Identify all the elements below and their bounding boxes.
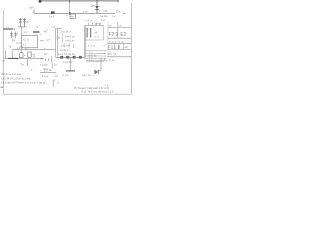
svg-text:a-.a-.: a-.a-.	[109, 59, 115, 62]
rail junction J2	[96, 0, 98, 3]
svg-text:1a.: 1a.	[49, 69, 53, 72]
svg-text:1a 4a 1: 1a 4a 1	[60, 49, 69, 52]
svg-text:7a|: 7a|	[56, 36, 60, 40]
Q1 dash	[40, 40, 44, 42]
svg-text:4. 1a: 4. 1a	[62, 73, 68, 77]
svg-text:=.: =.	[104, 58, 107, 62]
stub x5	[5, 51, 7, 59]
svg-text:c.1a1a: c.1a1a	[40, 64, 48, 67]
svg-text:w.: w.	[25, 47, 28, 50]
wire B thin	[13, 28, 16, 30]
wire A far right	[123, 12, 126, 14]
right box vline	[100, 57, 102, 70]
svg-text:9: 9	[115, 32, 118, 38]
frame right border	[130, 3, 132, 94]
svg-text:= .= .=: = .= .=	[85, 20, 93, 23]
inner bar 1	[87, 28, 88, 37]
rail end blob	[39, 0, 42, 3]
table T2 bottom line	[108, 48, 132, 50]
crystal cap X1	[19, 18, 22, 27]
wire D dark segment	[8, 57, 18, 59]
pin fanout row 3	[86, 55, 104, 57]
svg-text:1w.: 1w.	[44, 53, 48, 56]
svg-text:a8: a8	[125, 45, 129, 49]
diode D2 wire from rail	[69, 1, 71, 13]
svg-text:1a.4: 1a.4	[49, 14, 55, 18]
bar1 caps	[86, 28, 88, 37]
svg-text:q1: q1	[26, 19, 30, 23]
table T1 divider	[117, 22, 119, 38]
right area line	[86, 60, 108, 62]
svg-text:1a+4.1w: 1a+4.1w	[65, 35, 75, 39]
svg-text:Oa: Oa	[104, 9, 108, 13]
wire D ticks	[46, 58, 52, 61]
dash g4	[43, 68, 48, 70]
svg-text:a--.: a--.	[120, 24, 124, 27]
chain comp 4	[79, 56, 82, 59]
table T1 bottom line	[108, 37, 131, 39]
cap C1 vertical	[96, 1, 98, 13]
wire D	[4, 57, 44, 59]
big box left edge 1	[55, 28, 57, 57]
resistor R2	[20, 53, 23, 58]
svg-text:a.1.w+4: a.1.w+4	[61, 43, 71, 47]
T2 divider 2	[118, 43, 120, 49]
inner vline	[62, 33, 64, 43]
table T1 top line	[108, 27, 131, 29]
chain comp 1	[60, 56, 63, 59]
crystal cap X2	[23, 18, 26, 27]
rail end tick right	[117, 0, 119, 2]
svg-text:1.a.w: 1.a.w	[42, 74, 48, 78]
rail junction J1	[69, 0, 71, 3]
inner ticks	[65, 44, 74, 48]
wire C drop	[11, 50, 13, 59]
crystal drop wire	[21, 27, 23, 36]
net flag tick	[33, 10, 35, 14]
svg-text:1.a: 1.a	[101, 18, 105, 22]
T2 divider 3	[122, 43, 124, 49]
svg-text:+: +	[40, 32, 42, 36]
D2 junction tick	[69, 12, 71, 14]
svg-text:+4a.1a+: +4a.1a+	[65, 39, 75, 43]
svg-text:a--.: a--.	[109, 24, 113, 27]
vline g1	[51, 56, 53, 62]
U1 left stub	[16, 42, 22, 44]
svg-text:a1 ?o: a1 ?o	[108, 52, 116, 56]
svg-text:7a: 7a	[8, 44, 12, 48]
svg-text:w.n: w.n	[24, 31, 28, 34]
svg-text:a.1a.4a: a.1a.4a	[88, 54, 97, 57]
tables left edge	[107, 22, 109, 56]
hanging cap CA	[10, 32, 13, 39]
frame bottom border	[3, 93, 131, 95]
svg-text:A.a1 ?a.b.wrc altrwcal.r.1.h: A.a1 ?a.b.wrc altrwcal.r.1.h	[81, 89, 114, 93]
svg-text:1a 4 1w 4a 1a: 1a 4 1w 4a 1a	[58, 52, 75, 56]
right bottom wire	[97, 70, 101, 72]
svg-text:4a.: 4a.	[44, 31, 48, 34]
pin fanout row 2	[86, 52, 104, 54]
svg-text:W Taped Cab 1a0.1 R.w.8: W Taped Cab 1a0.1 R.w.8	[74, 86, 109, 90]
svg-text:t.1: t.1	[23, 42, 26, 46]
ferrite bead L1	[51, 11, 55, 14]
ground drop	[69, 57, 71, 70]
svg-text:1a.5-aN.W.PWww.s.a.1w.a-3.8a.w: 1a.5-aN.W.PWww.s.a.1w.a-3.8a.w	[1, 80, 46, 84]
tick on right line	[96, 61, 98, 63]
big box right edge 2	[85, 26, 87, 59]
R2 top stub	[20, 50, 22, 53]
svg-text:F4.: F4.	[55, 74, 59, 78]
svg-text:F2: F2	[109, 32, 115, 38]
chain comp 2	[66, 56, 69, 59]
border tick left	[1, 86, 4, 88]
svg-text:a1.G: a1.G	[23, 37, 29, 41]
big box left edge 2	[56, 28, 58, 56]
table T3 bottom line	[108, 56, 132, 58]
crystal join wire	[18, 26, 27, 28]
svg-text:t.o.: t.o.	[2, 59, 6, 63]
U1 dark dash	[33, 31, 40, 33]
diode D2 box	[70, 14, 76, 18]
svg-text:Ca.: Ca.	[116, 10, 121, 14]
wire A right	[97, 12, 116, 14]
ground bar	[66, 70, 75, 72]
top pin stubs	[89, 23, 101, 26]
chain comp 3	[73, 56, 76, 59]
big box right edge 1	[83, 26, 85, 59]
fanout arrows	[104, 51, 106, 59]
svg-text:+.: +.	[14, 29, 17, 32]
bar2 caps	[90, 28, 92, 37]
pin fanout row 1	[86, 50, 104, 52]
svg-text:Ta: Ta	[21, 63, 25, 67]
svg-text:5.3: 5.3	[44, 70, 48, 73]
LED D3 bar	[95, 9, 99, 11]
svg-text:a..a.: a..a.	[89, 52, 94, 54]
wire C	[12, 49, 55, 51]
bracket mark	[53, 80, 55, 87]
svg-text:1w+ 4a.: 1w+ 4a.	[63, 60, 73, 64]
svg-text:x.: x.	[44, 47, 46, 50]
table T2 top line	[108, 42, 132, 44]
svg-text:Tw..w:.a .: Tw..w:.a .	[61, 29, 73, 33]
right box top edge	[84, 25, 103, 27]
tick mid	[46, 29, 48, 32]
svg-text:1a.4a+: 1a.4a+	[100, 14, 108, 18]
big box top tick	[56, 27, 62, 29]
svg-text:E2: E2	[120, 32, 126, 38]
svg-text:m.1: m.1	[95, 35, 100, 39]
wire D drop	[27, 58, 29, 66]
right box right edge	[103, 26, 105, 40]
svg-text:a.: a.	[36, 26, 38, 29]
U1 bottom wire	[21, 48, 23, 50]
svg-text:1.: 1.	[31, 69, 33, 72]
frame left border	[2, 10, 4, 94]
pin fanout row 5	[86, 60, 104, 62]
top edge tab	[96, 23, 100, 25]
chain wire	[56, 56, 85, 58]
LED D3	[95, 6, 99, 9]
hanging cap CB	[14, 32, 17, 39]
wire A left	[34, 12, 97, 14]
top supply rail	[40, 0, 118, 2]
wire B dark	[3, 28, 13, 30]
T2 divider 1	[113, 43, 115, 49]
arrow diode	[94, 70, 98, 75]
right box bottom edge	[84, 39, 103, 41]
wire E	[40, 72, 56, 74]
svg-text:1a. | 2+ -: 1a. | 2+ -	[82, 73, 93, 77]
IC U1 box	[22, 35, 38, 47]
arrow diode bar	[97, 70, 99, 74]
svg-text:h?: h?	[47, 38, 51, 42]
svg-text:t.3: t.3	[52, 25, 56, 29]
pin fanout row 4	[86, 58, 104, 60]
svg-text:o.u..: o.u..	[112, 15, 117, 18]
svg-text:5a: 5a	[91, 4, 95, 8]
inner bar 2	[90, 28, 91, 37]
svg-text:a..1..a: a..1..a	[88, 45, 95, 48]
svg-text:a w+: a w+	[83, 11, 89, 14]
vline g3	[52, 62, 54, 68]
resistor R3	[28, 52, 31, 57]
